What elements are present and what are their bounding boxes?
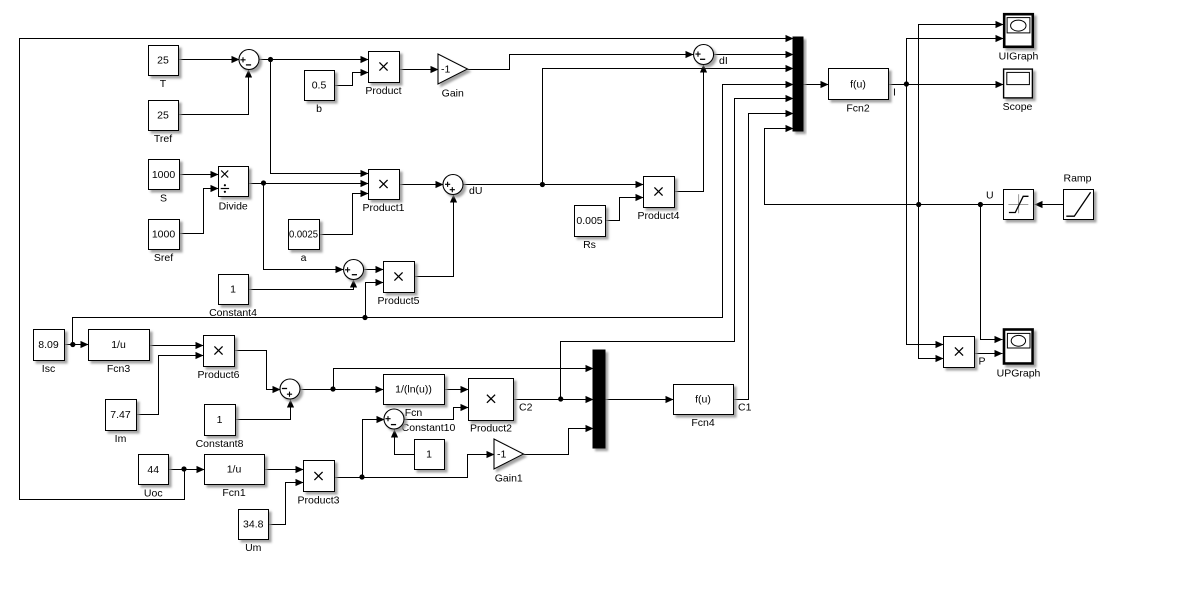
- fcn block Fcn2: [829, 69, 889, 115]
- constant S: [149, 160, 180, 205]
- divide block Divide: [219, 167, 249, 213]
- wire SumdU branch to Mux1 in3: [543, 65, 794, 185]
- svg-text:Product: Product: [365, 85, 401, 97]
- wire Constant10 to Sum10 minus: [391, 430, 415, 455]
- wire Sref to Divide in2: [180, 185, 219, 234]
- svg-text:UIGraph: UIGraph: [999, 51, 1039, 63]
- wire C2 branch to Mux1 in5: [561, 95, 794, 400]
- wire Product3 to Gain1: [335, 451, 495, 480]
- wire b to Product in2: [335, 69, 369, 86]
- product Product3: [297, 461, 339, 507]
- label P: [979, 356, 986, 368]
- fcn block Fcn: [384, 375, 445, 420]
- product Product2: [469, 379, 514, 435]
- wire Product3 branch to Sum10 plus: [363, 416, 385, 478]
- svg-text:0.5: 0.5: [312, 80, 327, 92]
- wire Product1 to SumdU: [400, 181, 444, 188]
- product P block: [944, 337, 975, 368]
- svg-text:Fcn4: Fcn4: [691, 417, 715, 429]
- mux Mux1: [793, 37, 803, 131]
- wire I branch to ProductP in1: [907, 85, 944, 349]
- svg-text:Constant4: Constant4: [209, 307, 257, 319]
- saturation block: [1004, 190, 1034, 220]
- svg-text:1: 1: [230, 284, 236, 296]
- svg-text:Tref: Tref: [154, 133, 172, 145]
- svg-text:-1: -1: [441, 64, 450, 76]
- wire Fcn2 to Scope: [889, 81, 1004, 88]
- wire Ramp to Saturation: [1035, 201, 1064, 208]
- svg-text:Product3: Product3: [297, 495, 339, 507]
- fcn block Fcn3: [89, 330, 150, 376]
- constant Constant10: [402, 422, 456, 470]
- constant a: [289, 220, 320, 265]
- scope sink Scope: [1003, 69, 1033, 113]
- label C2: [519, 402, 533, 414]
- wire Sum10 to Product2 in2: [405, 404, 469, 420]
- wire Sum6 branch to Mux2 in1: [334, 365, 594, 390]
- svg-text:Rs: Rs: [583, 239, 596, 251]
- svg-text:a: a: [301, 252, 307, 264]
- label C1: [738, 402, 752, 414]
- svg-text:1000: 1000: [152, 169, 176, 181]
- sum Sum5: [344, 260, 364, 280]
- wire SumdI to Mux1 in2: [714, 51, 794, 58]
- wire Fcn3 to Product6 in1: [150, 342, 204, 349]
- svg-text:Product1: Product1: [362, 202, 404, 214]
- svg-text:34.8: 34.8: [243, 519, 264, 531]
- svg-text:dI: dI: [719, 55, 728, 67]
- wire Sum5 to Product5 in1: [364, 266, 384, 273]
- wire a to Product1 in3: [320, 190, 369, 235]
- gain Gain1: [494, 439, 524, 485]
- svg-text:1/u: 1/u: [111, 339, 126, 351]
- sum SumdI dI: [694, 45, 714, 65]
- svg-text:Im: Im: [115, 433, 127, 445]
- wire Im to Product6 in2: [137, 352, 204, 415]
- svg-text:Fcn: Fcn: [405, 407, 423, 419]
- constant Constant8: [196, 405, 244, 451]
- scope sink UIGraph: [999, 14, 1039, 62]
- wire Um to Product3 in2: [269, 479, 304, 525]
- svg-text:Divide: Divide: [219, 201, 248, 213]
- svg-text:f(u): f(u): [695, 394, 711, 406]
- ramp source block: [1063, 173, 1093, 220]
- svg-text:Scope: Scope: [1003, 101, 1033, 113]
- svg-text:Constant8: Constant8: [196, 438, 244, 450]
- constant Im: [106, 400, 137, 446]
- label I: [893, 87, 896, 99]
- svg-text:Fcn1: Fcn1: [222, 487, 246, 499]
- wire Isc branch to Product5 in2: [366, 279, 384, 318]
- product Product6: [197, 336, 239, 382]
- wire Fcn1 to Product3 in1: [265, 466, 304, 473]
- svg-text:S: S: [160, 193, 167, 205]
- svg-text:44: 44: [147, 464, 159, 476]
- constant Tref: [149, 101, 179, 146]
- svg-text:Product5: Product5: [377, 295, 419, 307]
- fcn block Fcn1: [205, 455, 265, 500]
- label dI: [719, 55, 728, 67]
- wire Tref to SumT: [179, 70, 253, 115]
- sum SumdU dU: [443, 175, 463, 195]
- wire Mux2 to Fcn4: [606, 396, 674, 403]
- product Product4: [637, 177, 679, 223]
- mux Mux2: [593, 350, 605, 448]
- svg-text:Um: Um: [245, 542, 262, 554]
- svg-text:U: U: [986, 190, 994, 202]
- wire Rs to Product4 in2: [606, 194, 644, 221]
- wire Gain to SumdI: [468, 51, 694, 70]
- wire Divide to Product1 in2: [249, 180, 369, 187]
- svg-text:Product2: Product2: [470, 423, 512, 435]
- svg-text:C2: C2: [519, 402, 533, 414]
- svg-text:1: 1: [426, 449, 432, 461]
- svg-text:Product6: Product6: [197, 369, 239, 381]
- svg-text:b: b: [316, 103, 322, 115]
- svg-text:Fcn2: Fcn2: [846, 103, 870, 115]
- svg-text:0.0025: 0.0025: [289, 229, 318, 241]
- svg-text:UPGraph: UPGraph: [997, 368, 1041, 380]
- svg-text:1: 1: [217, 414, 223, 426]
- constant b: [305, 71, 335, 116]
- wire Saturation U line to Mux1 in7: [765, 125, 1004, 207]
- wire U branch to ProductP in2: [919, 205, 944, 363]
- wire Mux1 to Fcn2: [804, 81, 829, 88]
- constant Um: [239, 510, 269, 555]
- wire Product5 to SumdU plus: [415, 195, 458, 277]
- svg-text:Sref: Sref: [154, 252, 173, 264]
- svg-text:0.005: 0.005: [576, 215, 602, 227]
- product Product5: [377, 262, 419, 308]
- wire U branch to UPGraph in1: [981, 205, 1003, 344]
- svg-text:1/(ln(u)): 1/(ln(u)): [395, 384, 432, 396]
- wire Gain1 to Mux2 in3: [524, 425, 594, 455]
- constant T: [149, 46, 179, 91]
- svg-text:8.09: 8.09: [38, 339, 59, 351]
- svg-text:dU: dU: [469, 185, 482, 197]
- svg-text:-1: -1: [497, 449, 506, 461]
- wire Uoc loop to Mux1 in1: [20, 35, 794, 500]
- wire S to Divide in1: [180, 171, 219, 178]
- wire I branch to UIGraph in2: [907, 35, 1004, 85]
- svg-text:Uoc: Uoc: [144, 488, 163, 500]
- wire Product6 to Sum6: [235, 351, 281, 394]
- svg-text:I: I: [893, 87, 896, 99]
- svg-text:T: T: [160, 78, 167, 90]
- fcn block Fcn4: [674, 385, 734, 430]
- wire Constant4 to Sum5 minus: [249, 280, 358, 290]
- scope sink UPGraph: [997, 330, 1041, 380]
- svg-text:25: 25: [157, 55, 169, 67]
- sum Sum6: [280, 379, 300, 399]
- product Product: [365, 52, 401, 98]
- label U: [986, 190, 994, 202]
- gain Gain: [438, 54, 468, 100]
- constant Constant4: [209, 275, 257, 320]
- wire Uoc to Fcn1: [169, 466, 205, 473]
- wire ProductP to UPGraph in2: [975, 350, 1003, 357]
- label dU: [469, 185, 482, 197]
- wire Isc to Fcn3: [65, 341, 89, 348]
- svg-text:7.47: 7.47: [110, 409, 131, 421]
- svg-text:1/u: 1/u: [227, 464, 242, 476]
- svg-text:C1: C1: [738, 402, 752, 414]
- svg-text:Ramp: Ramp: [1063, 173, 1091, 185]
- sum Sum10: [384, 409, 404, 429]
- wire U branch to UIGraph in1: [919, 21, 1004, 205]
- wire Divide branch to Sum5: [264, 184, 344, 274]
- product Product1: [362, 170, 404, 215]
- svg-text:P: P: [979, 356, 986, 368]
- svg-text:Isc: Isc: [42, 363, 55, 375]
- constant Uoc: [139, 455, 169, 500]
- wire SumT to Product in1: [260, 56, 369, 63]
- sum SumT T minus Tref: [239, 50, 259, 70]
- wire Product to Gain: [400, 66, 439, 73]
- wire SumdU to Product4 in1: [464, 181, 644, 188]
- svg-text:25: 25: [157, 110, 169, 122]
- svg-text:f(u): f(u): [850, 79, 866, 91]
- svg-text:Fcn3: Fcn3: [107, 363, 131, 375]
- svg-text:Gain1: Gain1: [495, 473, 523, 485]
- wire Product2 to Mux2 in2: [514, 396, 594, 403]
- svg-text:Constant10: Constant10: [402, 422, 456, 434]
- svg-text:Gain: Gain: [442, 88, 464, 100]
- wire Product4 to SumdI minus: [675, 65, 708, 192]
- wire T to SumT: [179, 56, 240, 63]
- svg-text:1000: 1000: [152, 229, 176, 241]
- wire Fcn4 to Mux1 in6: [734, 110, 794, 400]
- wire Constant8 to Sum6 plus: [236, 400, 295, 420]
- svg-text:Product4: Product4: [637, 210, 679, 222]
- wire Sum6 to Fcn: [301, 386, 384, 393]
- constant Isc: [34, 330, 65, 376]
- constant Sref: [149, 220, 180, 265]
- wire Isc line to Mux1 in4: [73, 81, 794, 345]
- constant Rs: [575, 206, 606, 252]
- wire Fcn to Product2 in1: [445, 386, 469, 393]
- wire SumT branch to Product1 in1: [271, 60, 369, 178]
